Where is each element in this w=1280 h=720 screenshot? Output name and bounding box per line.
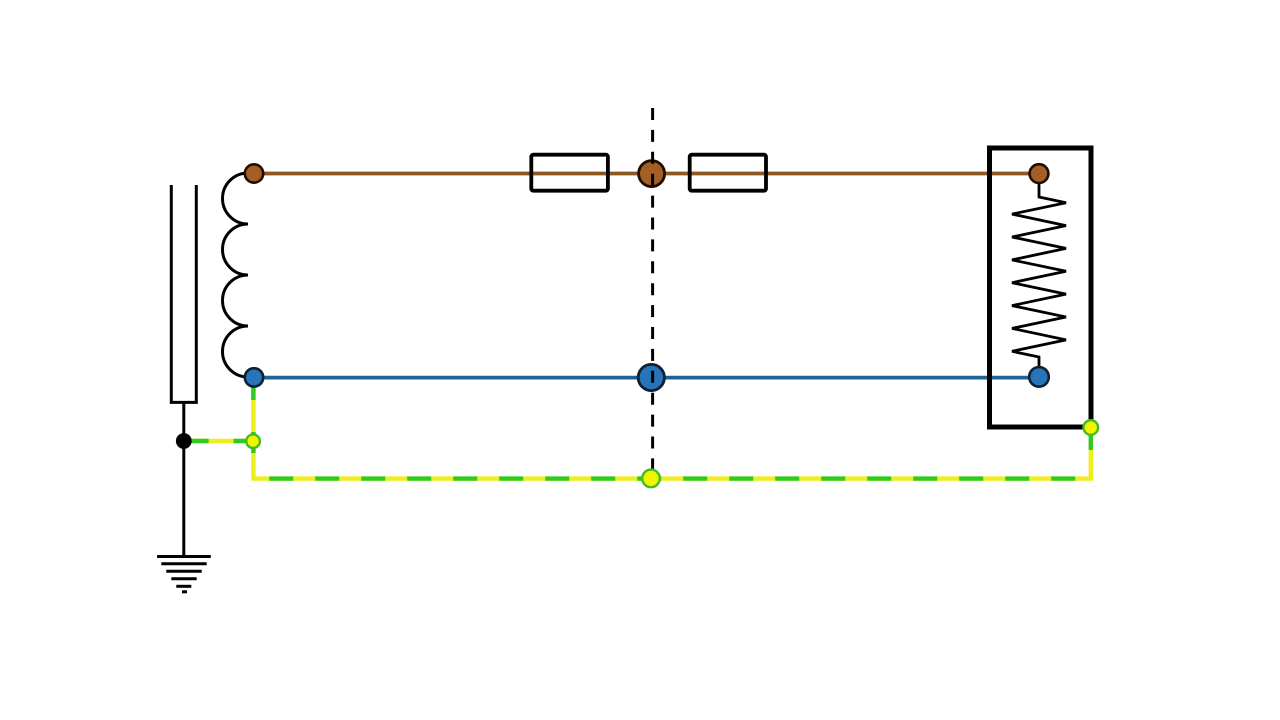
wire: PE run from node PE1 down, across bottom, up to node PE3 (yellow base) bbox=[253, 434, 1090, 479]
node L terminal at transformer (brown) bbox=[245, 164, 263, 182]
wire: PE segment from N terminal down to node PE1 (yellow base) bbox=[251, 386, 255, 435]
wire: PE green dash at top of right riser bbox=[1089, 434, 1093, 450]
resistor (load) bbox=[1012, 183, 1066, 367]
wire: PE green dashes on bottom run bbox=[253, 476, 1090, 480]
boundary dashed line bbox=[651, 108, 654, 470]
earth electrode (open-top U shape) bbox=[171, 185, 196, 402]
ground bbox=[157, 402, 211, 591]
node L midpoint (brown, large) bbox=[639, 161, 665, 187]
node earth junction (black) bbox=[176, 433, 192, 449]
fuse F1 bbox=[531, 155, 608, 191]
wire: PE segment from earth junction to node PE1 (green dashes) bbox=[192, 439, 247, 443]
node PE3 at load corner (yellow/green) bbox=[1084, 420, 1099, 435]
node N midpoint (blue, large) bbox=[638, 364, 664, 390]
fuse F2 bbox=[690, 155, 766, 191]
wire: L conductor (brown) from transformer to load bbox=[254, 172, 1039, 176]
transformer winding bbox=[223, 173, 248, 377]
node PE1 (yellow/green) bbox=[246, 434, 260, 448]
wire: PE segment from N terminal down to node PE1 (green dashes) bbox=[251, 386, 255, 435]
node N terminal at transformer (blue) bbox=[245, 368, 263, 386]
wire: PE segment from earth junction to node PE1 (yellow base) bbox=[192, 439, 247, 443]
wire: PE green dash at top of left drop bbox=[251, 448, 255, 453]
node PE2 midpoint (yellow/green, large) bbox=[642, 470, 660, 488]
node L terminal at load (brown) bbox=[1030, 164, 1049, 183]
load enclosure bbox=[990, 148, 1092, 427]
node N terminal at load (blue) bbox=[1029, 367, 1049, 387]
wire: N conductor (blue) from transformer to load bbox=[254, 376, 1039, 380]
